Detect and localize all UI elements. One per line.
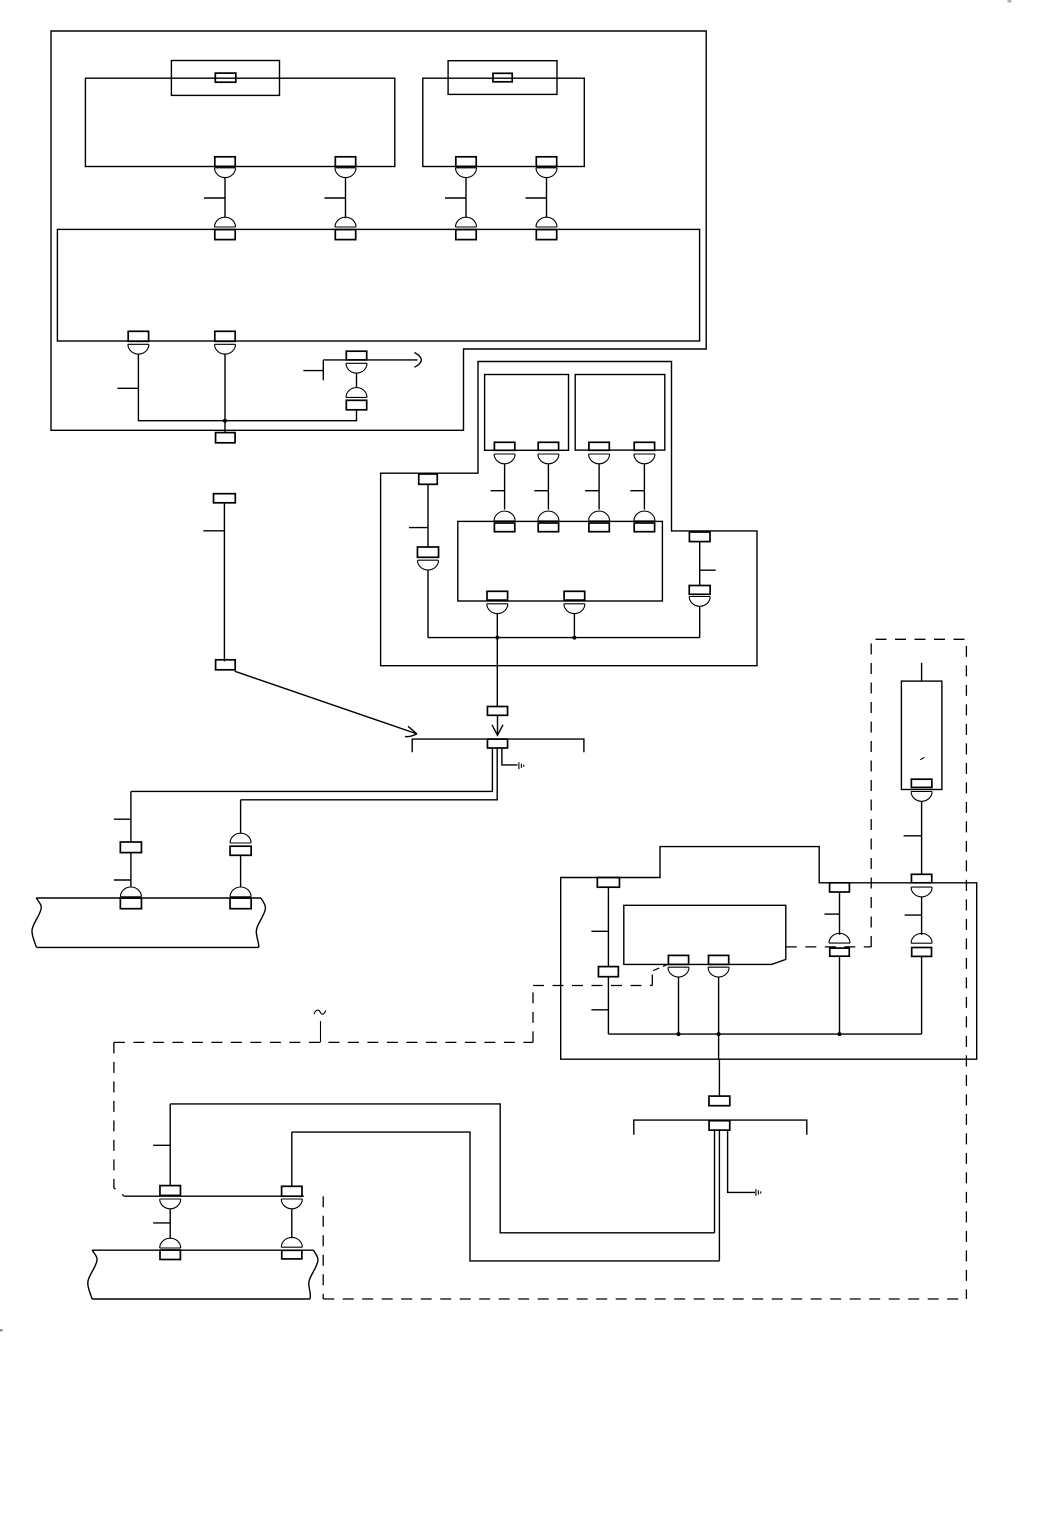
junction dot E2 bbox=[572, 636, 576, 640]
dashed corner up bbox=[532, 986, 534, 1043]
bottom col2 bbox=[281, 1132, 302, 1259]
dashed wire H to shield box bbox=[786, 946, 871, 948]
bracket 1 wire mid bbox=[241, 748, 498, 800]
antenna bracket 2 bbox=[634, 1120, 807, 1135]
relay block B1 bbox=[85, 78, 394, 166]
switch box D1 bbox=[485, 375, 569, 451]
relay block B2 bbox=[423, 78, 585, 166]
fuse holder F2 bbox=[448, 61, 557, 95]
G left col bbox=[591, 878, 619, 1035]
bus wire under E bbox=[428, 637, 700, 639]
left inline connector col bbox=[409, 474, 439, 638]
lower bracket upper rect bbox=[709, 1096, 730, 1106]
dashed vertical mid bbox=[322, 1196, 324, 1299]
connector pair P1 (relay to bus) bbox=[204, 157, 236, 240]
connector pair P6 (bus C output) bbox=[215, 331, 236, 354]
connector pair M4 (switch to bus E) bbox=[630, 442, 655, 531]
tilde continuation mark bbox=[314, 1010, 326, 1042]
ground symbol 2 bbox=[756, 1189, 761, 1196]
dashed shield box (antenna) bbox=[871, 639, 966, 1299]
standalone link tick bbox=[203, 530, 224, 532]
connector below box (pigtail) bbox=[216, 433, 236, 443]
fuse holder F1 bbox=[171, 61, 279, 96]
inner unit H (chamfered) bbox=[624, 905, 786, 964]
standalone link lower rect bbox=[216, 660, 236, 670]
component pair at G edge bbox=[905, 874, 933, 1034]
H bottom col2 bbox=[708, 955, 729, 1059]
big dashed box top edge bbox=[114, 1041, 533, 1043]
junction dot G2 bbox=[717, 1032, 721, 1036]
bracket 1 wire to ground bbox=[502, 748, 518, 765]
bracket 1 rect bbox=[487, 739, 507, 748]
bracket 2 wire to ground bbox=[728, 1130, 755, 1192]
artifact left edge bbox=[0, 1329, 3, 1332]
dashed wire left run bbox=[533, 985, 652, 987]
wire X1 mid bbox=[356, 374, 358, 388]
wire run 1 bbox=[170, 1104, 714, 1233]
junction box outline (notched) bbox=[51, 31, 706, 430]
tick on stub bbox=[303, 370, 323, 372]
left harness col1 bbox=[114, 791, 142, 908]
wire to arrow connector bbox=[225, 410, 357, 421]
connector pair P2 (relay to bus) bbox=[325, 157, 357, 240]
feeder arrow bbox=[492, 715, 503, 735]
wire P5 down and right bbox=[138, 355, 225, 421]
bracket 1 wire left bbox=[131, 748, 493, 791]
connector pair M1 (switch to bus E) bbox=[491, 442, 515, 531]
ignition switch assembly outline bbox=[381, 362, 757, 666]
audio unit outline G bbox=[561, 847, 977, 1060]
connector pair P4 (relay to bus) bbox=[526, 157, 558, 240]
connector X1 upper half bbox=[346, 351, 367, 373]
stub branch bbox=[322, 360, 324, 380]
bus box E bbox=[458, 521, 663, 601]
harness band 1 (torn strip) bbox=[32, 898, 265, 947]
ground symbol 1 bbox=[519, 762, 524, 769]
feeder connector rect bbox=[487, 707, 507, 716]
annotation arrow (points to feeder) bbox=[235, 671, 417, 736]
bus box C bbox=[57, 229, 699, 341]
wire across connectors bbox=[124, 1195, 303, 1197]
arrowhead right bbox=[415, 353, 422, 368]
big dashed box bottom edge bbox=[323, 1298, 966, 1300]
junction dot G3 bbox=[838, 1032, 842, 1036]
wire run 2 bbox=[292, 1132, 720, 1261]
standalone link wire bbox=[223, 503, 225, 662]
H bottom col1 bbox=[668, 955, 689, 1034]
connector pair M3 (switch to bus E) bbox=[585, 442, 610, 531]
connector pair P5 (bus C output) bbox=[128, 331, 149, 354]
G mid col bbox=[825, 883, 851, 1034]
arrow wire (to middle section) bbox=[323, 359, 417, 361]
connector pair M5 (bus E output) bbox=[487, 591, 508, 637]
junction dot E1 bbox=[495, 636, 499, 640]
bus wire G bbox=[608, 1033, 921, 1035]
bracket 2 wire mid bbox=[718, 1130, 720, 1261]
bracket 2 wire left bbox=[714, 1130, 716, 1233]
component bottom connector bbox=[911, 779, 932, 801]
switch box D2 bbox=[575, 375, 665, 451]
harness band 2 (torn strip) bbox=[88, 1250, 318, 1299]
connector pair M2 (switch to bus E) bbox=[534, 442, 559, 531]
antenna component (dashed box interior) bbox=[901, 663, 942, 790]
artifact top right bbox=[1008, 0, 1012, 3]
bottom col1 bbox=[153, 1104, 181, 1260]
junction dot G1 bbox=[677, 1032, 681, 1036]
wire from bus E to feeder bbox=[496, 638, 498, 707]
left harness col2 bbox=[230, 800, 251, 909]
connector pair P3 (relay to bus) bbox=[445, 157, 477, 240]
wire G to lower bracket bbox=[718, 1059, 720, 1096]
right inline connector col bbox=[689, 532, 716, 638]
fuse F2 element bbox=[493, 73, 512, 82]
component col wire bbox=[904, 802, 922, 875]
bracket 2 rect bbox=[709, 1121, 730, 1130]
connector X1 lower half bbox=[346, 388, 367, 410]
antenna bracket 1 bbox=[412, 739, 584, 752]
big dashed box left edge bbox=[114, 1042, 124, 1196]
dashed wire to H connector bbox=[652, 964, 668, 985]
wire P6 down bbox=[224, 355, 226, 433]
fuse F1 element bbox=[215, 73, 236, 82]
standalone connector link upper rect bbox=[214, 494, 236, 503]
junction dot bbox=[223, 419, 227, 423]
mark inside component bbox=[920, 757, 924, 759]
connector pair M6 (bus E output) bbox=[564, 591, 585, 637]
tick P5 bbox=[117, 387, 138, 389]
